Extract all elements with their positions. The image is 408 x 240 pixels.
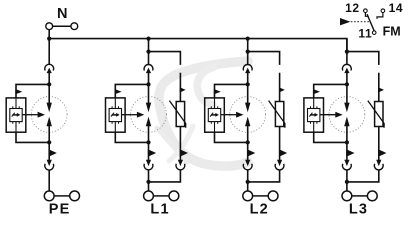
wire trigger box top L3 (314, 84, 347, 98)
spark gap L3 (344, 84, 349, 142)
wire (48, 73, 50, 85)
thermal disconnect flag L2 trigger (214, 89, 221, 94)
plug-in connector L2 top left (243, 65, 252, 74)
wire L2 left drop (247, 39, 249, 65)
junction split L1 (146, 50, 150, 54)
varistor L2 (269, 101, 285, 128)
svg-text:L2: L2 (250, 202, 269, 218)
wire (247, 142, 249, 160)
thermal disconnect flag L2 varistor top (279, 87, 285, 92)
thermal disconnect flag L3 trigger (313, 89, 320, 94)
wire trigger box bottom L3 (314, 132, 347, 142)
junction bus/L2 (246, 37, 250, 41)
junction box bottom L2 (246, 140, 250, 144)
trigger unit PE (6, 98, 26, 132)
svg-text:N: N (57, 6, 67, 22)
thermal disconnect flag L1 trigger (115, 89, 122, 94)
plug-in connector L3 top left (342, 64, 351, 73)
wire trigger box bottom PE (16, 132, 49, 142)
svg-text:FM: FM (383, 24, 401, 38)
junction join L2 (246, 180, 250, 184)
trigger unit L3 (304, 98, 324, 132)
plug-in connector L3 bottom right (374, 160, 383, 170)
contact 11 common (372, 31, 376, 35)
module outline (dashed circle) PE (31, 97, 67, 133)
spark gap L2 (245, 84, 250, 142)
trigger electrode arrow L1 (122, 112, 145, 118)
plug-in connector PE top left (45, 64, 54, 73)
thermal disconnect flag L3 lower left (346, 149, 354, 157)
wire N to bus (48, 30, 50, 39)
wire (148, 142, 150, 160)
wire to terminal PE (48, 170, 50, 191)
wire (279, 73, 281, 102)
wire (148, 73, 150, 85)
junction join L3 (345, 180, 349, 184)
thermal disconnect flag L3 lower right (378, 149, 386, 157)
thermal disconnect flag L2 lower right (279, 149, 287, 157)
spark gap L1 (146, 84, 151, 142)
FM actuation arrow (340, 18, 370, 25)
thermal disconnect flag PE trigger (15, 89, 22, 94)
plug-in connector L2 bottom right (275, 160, 284, 170)
wire L3 left drop (346, 39, 348, 65)
svg-text:11: 11 (358, 27, 372, 41)
svg-text:12: 12 (345, 1, 360, 15)
thermal disconnect flag L1 lower left (148, 149, 156, 157)
plug-in connector L1 bottom left (144, 160, 153, 170)
module outline (dashed circle) L1 (131, 97, 167, 133)
svg-text:PE: PE (49, 202, 71, 218)
wire (179, 73, 181, 102)
svg-text:L1: L1 (150, 202, 169, 218)
wire L2 right drop (248, 52, 280, 65)
wire PE left drop (48, 39, 50, 65)
trigger electrode arrow L2 (221, 112, 244, 118)
junction box bottom L1 (146, 140, 150, 144)
terminal PE (double circle) (44, 191, 79, 201)
wire trigger box top L2 (215, 84, 248, 98)
spark gap PE (47, 84, 52, 142)
wire trigger box top L1 (115, 84, 148, 98)
wire (279, 127, 281, 161)
wire (378, 73, 380, 102)
terminal L1 (double circle) (144, 191, 179, 201)
wire (179, 127, 181, 161)
trigger unit L1 (106, 98, 126, 132)
wire (378, 127, 380, 161)
wire right join L3 (347, 170, 379, 182)
trigger unit L2 (205, 98, 225, 132)
terminal L2 (double circle) (243, 191, 278, 201)
thermal disconnect flag L3 varistor top (378, 87, 384, 92)
thermal disconnect flag L1 varistor top (180, 87, 186, 92)
junction box bottom L3 (345, 140, 349, 144)
junction box bottom PE (47, 140, 51, 144)
junction trigger top L1 (146, 82, 150, 86)
junction bus/N (47, 37, 51, 41)
svg-text:L3: L3 (349, 202, 368, 218)
plug-in connector L3 bottom left (342, 160, 351, 170)
module outline (dashed circle) L2 (230, 97, 266, 133)
terminal N (double circle) (46, 23, 78, 30)
wire L1 right drop (149, 52, 181, 65)
plug-in connector L2 bottom left (243, 160, 252, 170)
svg-text:14: 14 (389, 1, 404, 15)
trigger electrode arrow PE (22, 112, 45, 118)
wire (346, 142, 348, 160)
plug-in connector PE bottom left (45, 160, 54, 170)
module outline (dashed circle) L3 (329, 97, 365, 133)
wire trigger box top PE (16, 84, 49, 98)
wire trigger box bottom L2 (215, 132, 248, 142)
junction bus/L1 (146, 37, 150, 41)
contact 12 (364, 9, 369, 16)
wire right join L1 (149, 170, 181, 182)
bus wire N (49, 39, 347, 52)
plug-in connector L1 top left (144, 65, 153, 74)
varistor L1 (169, 101, 185, 128)
junction split L3 (345, 50, 349, 54)
switch arm 11-12 (367, 14, 374, 31)
wire trigger box bottom L1 (115, 132, 148, 142)
wire right join L2 (248, 170, 280, 182)
thermal disconnect flag L2 lower left (247, 149, 255, 157)
thermal disconnect flag PE lower left (49, 149, 57, 157)
junction trigger top L3 (345, 82, 349, 86)
wire (346, 73, 348, 85)
trigger electrode arrow L3 (320, 112, 343, 118)
thermal disconnect flag L1 lower right (180, 149, 188, 157)
junction trigger top L2 (246, 82, 250, 86)
wire L1 left drop (148, 39, 150, 65)
wire (247, 73, 249, 85)
terminal L3 (double circle) (342, 191, 377, 201)
wire L3 right drop (347, 52, 379, 65)
contact 14 (377, 9, 385, 19)
junction join L1 (146, 180, 150, 184)
wire left to terminal (346, 170, 348, 191)
wire (48, 142, 50, 160)
wire left to terminal (148, 170, 150, 191)
varistor L3 (368, 101, 384, 128)
junction split L2 (246, 50, 250, 54)
wire left to terminal (247, 170, 249, 191)
junction trigger top PE (47, 82, 51, 86)
plug-in connector L1 bottom right (176, 160, 185, 170)
